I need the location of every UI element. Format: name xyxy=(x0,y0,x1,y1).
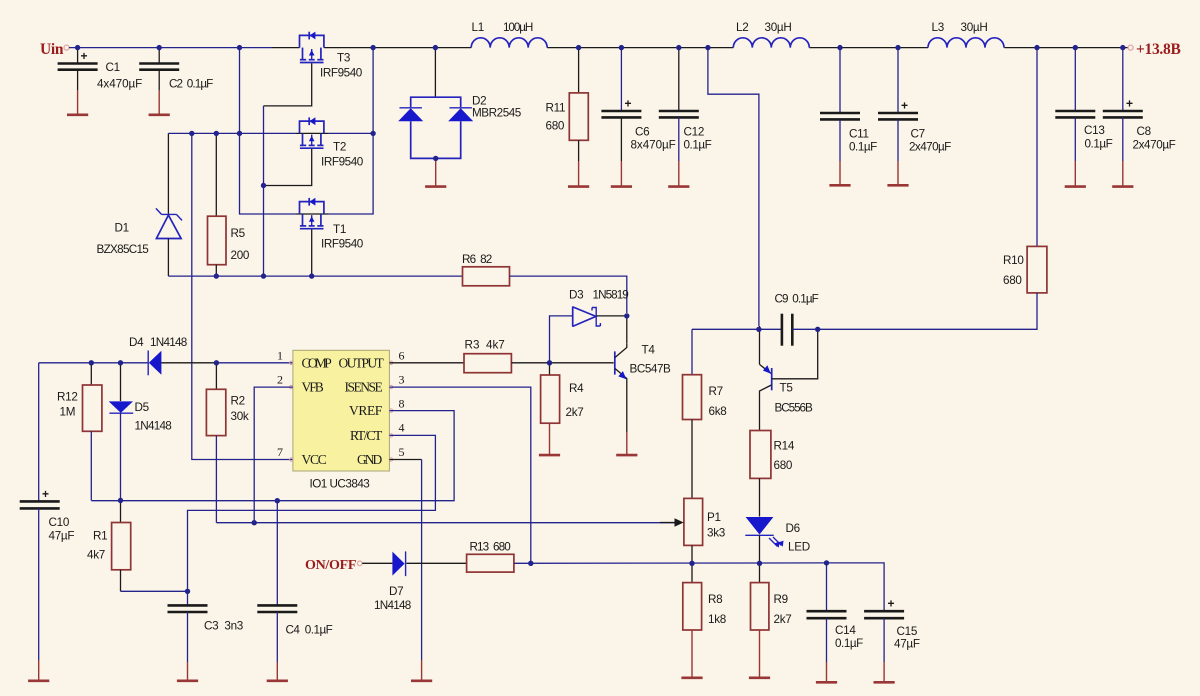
svg-text:R5: R5 xyxy=(231,227,246,240)
svg-text:RT/CT: RT/CT xyxy=(350,428,383,443)
svg-text:6: 6 xyxy=(399,349,405,363)
svg-text:L2: L2 xyxy=(736,21,748,34)
wire R1 bottom to C3 xyxy=(121,590,188,592)
capacitor C14 0.1uF xyxy=(807,563,864,662)
svg-text:680: 680 xyxy=(774,459,793,472)
capacitor C2 0.1uF xyxy=(139,48,213,91)
svg-text:D7: D7 xyxy=(389,585,403,598)
svg-text:6k8: 6k8 xyxy=(709,405,727,418)
wire drain bus T2 to T1 level xyxy=(328,133,373,214)
svg-text:T3: T3 xyxy=(337,52,350,65)
diode D4 1N4148 xyxy=(129,336,216,375)
svg-text:7: 7 xyxy=(277,445,283,459)
svg-text:T1: T1 xyxy=(333,223,346,236)
svg-text:D3: D3 xyxy=(569,289,583,302)
wire drain bus vertical from rail xyxy=(372,48,374,134)
svg-text:30µH: 30µH xyxy=(961,21,988,34)
node ON/OFF terminal xyxy=(305,558,362,573)
wire source bus down to T1 source xyxy=(240,133,297,214)
svg-text:C13: C13 xyxy=(1084,124,1105,137)
ground C4 xyxy=(267,662,288,681)
wire top rail Uin to T3 source xyxy=(69,47,272,49)
svg-text:R1: R1 xyxy=(93,530,107,543)
wire IC pin8 VREF right down and left xyxy=(91,411,454,501)
wire gate bus vertical xyxy=(263,106,265,276)
wire ON/OFF to D7 xyxy=(362,562,392,564)
svg-text:0.1µF: 0.1µF xyxy=(684,139,712,152)
svg-text:D5: D5 xyxy=(135,401,150,414)
transistor T3 IRF9540 p-mosfet xyxy=(300,32,363,80)
inductor L2 30uH xyxy=(733,21,809,48)
wire IC pin2 VFB left and down xyxy=(254,387,293,523)
wire VFB net to P1 wiper xyxy=(216,522,680,524)
resistor R8 1k8 xyxy=(683,563,726,630)
wire COMP net C10 corner to D4 cathode xyxy=(39,362,149,364)
svg-text:C10: C10 xyxy=(49,516,70,529)
svg-text:BC556B: BC556B xyxy=(775,402,814,415)
ground T4 emitter xyxy=(616,383,637,455)
svg-text:+13.8B: +13.8B xyxy=(1136,41,1181,58)
svg-text:R14: R14 xyxy=(774,440,795,453)
capacitor C7 2x470uF electrolytic xyxy=(878,48,951,161)
resistor R7 6k8 xyxy=(683,329,727,498)
svg-text:BZX85C15: BZX85C15 xyxy=(97,243,150,256)
ground C8 xyxy=(1112,161,1133,187)
svg-text:IRF9540: IRF9540 xyxy=(320,67,363,80)
svg-text:+: + xyxy=(1126,97,1133,111)
wire IC pin4 RTCT right down left to C3 xyxy=(188,435,436,605)
capacitor C9 0.1uF xyxy=(775,293,819,346)
wire first stage output down to T5 emitter node xyxy=(708,48,759,326)
svg-text:ISENSE: ISENSE xyxy=(345,380,383,395)
svg-text:R3 4k7: R3 4k7 xyxy=(465,339,505,352)
wire top rail T3 drain to L1 xyxy=(324,47,471,49)
svg-text:200: 200 xyxy=(231,249,250,262)
svg-text:2k7: 2k7 xyxy=(566,406,584,419)
svg-text:2x470µF: 2x470µF xyxy=(1133,139,1176,152)
svg-text:T4: T4 xyxy=(642,344,656,357)
wire R3 to T4 base xyxy=(511,362,613,364)
resistor R3 4k7 xyxy=(464,339,511,373)
wire D7 to R13 xyxy=(407,562,467,564)
capacitor C6 8x470uF electrolytic xyxy=(601,48,675,161)
diode D1 BZX85C15 zener xyxy=(97,133,183,276)
svg-text:+: + xyxy=(888,597,895,611)
svg-text:IRF9540: IRF9540 xyxy=(321,238,364,251)
diode D2 MBR2545 dual schottky xyxy=(398,48,522,159)
svg-text:C3 3n3: C3 3n3 xyxy=(204,620,243,633)
capacitor C13 0.1uF xyxy=(1055,48,1112,161)
svg-text:2k7: 2k7 xyxy=(774,613,792,626)
svg-text:R11: R11 xyxy=(546,102,566,115)
svg-text:D1: D1 xyxy=(115,222,129,235)
svg-text:47µF: 47µF xyxy=(894,638,920,651)
svg-text:C14: C14 xyxy=(835,624,856,637)
resistor R2 30k xyxy=(206,363,249,523)
svg-text:R6 82: R6 82 xyxy=(462,253,492,266)
svg-text:VCC: VCC xyxy=(302,452,327,467)
ground R9 xyxy=(749,630,770,678)
wire input rail down to source bus xyxy=(239,48,241,134)
svg-text:0.1µF: 0.1µF xyxy=(1085,138,1113,151)
diode D6 LED xyxy=(745,517,810,563)
wire top rail into T3 xyxy=(272,47,300,49)
capacitor C1 4x470uF electrolytic xyxy=(58,48,143,91)
wire VCC from source bus down to IC pin7 xyxy=(192,133,293,459)
svg-text:C11: C11 xyxy=(849,128,869,141)
wire IC pin6 OUTPUT to R3 xyxy=(389,362,464,364)
ground C10 xyxy=(28,660,49,681)
capacitor C12 0.1uF xyxy=(659,48,712,161)
capacitor C4 0.1uF xyxy=(257,501,332,662)
wire IC pin5 GND down to ground xyxy=(389,459,421,461)
svg-text:L1: L1 xyxy=(472,21,484,34)
svg-text:+: + xyxy=(625,97,632,111)
wire top rail L3 to +13.8B terminal xyxy=(1004,47,1128,49)
wire T1 gate down to bottom gate wire xyxy=(311,230,313,277)
svg-text:1N4148: 1N4148 xyxy=(135,420,172,433)
diode D3 1N5819 schottky xyxy=(569,289,629,327)
svg-text:8x470µF: 8x470µF xyxy=(631,139,676,152)
svg-text:1N4148: 1N4148 xyxy=(150,336,187,349)
svg-text:1M: 1M xyxy=(60,406,76,419)
ground C12 xyxy=(668,161,689,187)
svg-text:IRF9540: IRF9540 xyxy=(321,156,364,169)
svg-text:R2: R2 xyxy=(231,395,245,408)
resistor R11 680 xyxy=(546,48,589,161)
wire T4 collector up to D3 and R6 xyxy=(626,316,628,343)
inductor L1 100uH xyxy=(471,21,547,48)
svg-text:2x470µF: 2x470µF xyxy=(909,141,951,154)
svg-text:1N5819: 1N5819 xyxy=(593,289,629,302)
svg-text:C9 0.1µF: C9 0.1µF xyxy=(775,293,819,306)
svg-text:4: 4 xyxy=(399,421,405,435)
svg-text:P1: P1 xyxy=(707,511,721,524)
transistor T4 BC547B npn xyxy=(615,343,671,383)
diode D7 1N4148 xyxy=(374,551,411,612)
svg-text:C12: C12 xyxy=(684,126,705,139)
ground R4 xyxy=(539,423,560,455)
svg-text:1k8: 1k8 xyxy=(708,613,726,626)
node +13.8B terminal xyxy=(1128,41,1180,58)
svg-text:D4: D4 xyxy=(129,336,144,349)
svg-text:2: 2 xyxy=(277,373,283,387)
svg-text:R4: R4 xyxy=(569,382,584,395)
svg-text:COMP: COMP xyxy=(302,355,332,370)
svg-text:1: 1 xyxy=(277,349,283,363)
svg-text:R8: R8 xyxy=(708,593,722,606)
ground R11 xyxy=(568,161,589,187)
svg-text:C6: C6 xyxy=(635,126,649,139)
ground IC pin5 xyxy=(411,660,432,681)
capacitor C15 47uF electrolytic xyxy=(827,563,920,662)
svg-text:+: + xyxy=(901,99,908,113)
svg-text:47µF: 47µF xyxy=(49,530,75,543)
svg-text:C15: C15 xyxy=(897,625,918,638)
ground C1 xyxy=(67,90,88,115)
svg-text:30µH: 30µH xyxy=(765,21,792,34)
wire R13 to P1 bottom rail xyxy=(514,562,827,564)
resistor R9 2k7 xyxy=(751,563,792,630)
svg-text:C1: C1 xyxy=(106,61,120,74)
svg-text:OUTPUT: OUTPUT xyxy=(339,355,385,370)
wire top rail L1 to L2 xyxy=(547,47,733,49)
svg-text:ON/OFF: ON/OFF xyxy=(305,558,356,573)
capacitor C11 0.1uF xyxy=(820,48,877,161)
svg-text:BC547B: BC547B xyxy=(630,363,672,376)
capacitor C8 2x470uF electrolytic xyxy=(1103,48,1176,161)
wire IC pin3 ISENSE right and down xyxy=(389,387,530,563)
svg-text:T5: T5 xyxy=(780,382,794,395)
wire gate bottom rail to R6 xyxy=(168,275,462,277)
wire R6 to T4 collector node xyxy=(510,276,627,313)
wire T3 gate down and left xyxy=(264,63,312,106)
inductor L3 30uH xyxy=(928,21,1004,48)
resistor R6 82 xyxy=(462,253,510,286)
ground C14 xyxy=(816,662,837,682)
svg-text:R12: R12 xyxy=(57,391,78,404)
svg-text:+: + xyxy=(81,49,88,63)
transistor T1 IRF9540 p-mosfet xyxy=(296,198,364,251)
ic IO1 UC3843 xyxy=(277,349,405,491)
wire T2 gate down and left to gate bus xyxy=(264,149,312,186)
svg-text:D6: D6 xyxy=(786,522,800,535)
svg-text:C4 0.1µF: C4 0.1µF xyxy=(286,624,333,637)
svg-text:680: 680 xyxy=(546,120,565,133)
svg-text:Uin: Uin xyxy=(40,41,64,58)
ground C6 xyxy=(611,161,632,187)
svg-text:3k3: 3k3 xyxy=(707,527,725,540)
resistor R12 1M xyxy=(57,363,102,501)
ground C3 xyxy=(177,662,198,681)
svg-text:100µH: 100µH xyxy=(503,21,533,34)
svg-text:C8: C8 xyxy=(1137,125,1151,138)
svg-text:0.1µF: 0.1µF xyxy=(849,141,877,154)
transistor T2 IRF9540 p-mosfet xyxy=(296,117,364,168)
wire C9 node left segment xyxy=(692,328,781,330)
wire C9 right to base node xyxy=(792,328,817,330)
svg-text:3: 3 xyxy=(399,373,405,387)
svg-text:680: 680 xyxy=(1003,274,1022,287)
wire source bus y=133 xyxy=(168,132,373,134)
svg-text:1N4148: 1N4148 xyxy=(374,599,411,612)
wire R10 bottom to C9 node xyxy=(818,293,1037,329)
resistor R10 680 xyxy=(1003,48,1047,293)
ground C11 xyxy=(829,161,850,185)
svg-text:5: 5 xyxy=(399,445,405,459)
svg-text:4k7: 4k7 xyxy=(87,549,105,562)
resistor R14 680 xyxy=(750,395,795,517)
potentiometer P1 3k3 xyxy=(660,498,725,563)
svg-text:MBR2545: MBR2545 xyxy=(472,107,522,120)
svg-text:GND: GND xyxy=(357,452,383,467)
svg-text:VFB: VFB xyxy=(302,380,324,395)
capacitor C3 3n3 xyxy=(168,605,244,662)
wire D4 anode to IC pin1 xyxy=(216,362,293,364)
svg-text:L3: L3 xyxy=(932,21,944,34)
ground D2 xyxy=(425,158,446,186)
svg-text:0.1µF: 0.1µF xyxy=(835,637,863,650)
svg-text:C2 0.1µF: C2 0.1µF xyxy=(169,78,213,91)
ground C7 xyxy=(887,161,908,185)
resistor R13 680 xyxy=(467,541,514,573)
ground C13 xyxy=(1065,161,1086,187)
svg-text:+: + xyxy=(42,487,49,501)
wire D3 anode branch xyxy=(550,316,573,363)
svg-text:T2: T2 xyxy=(333,141,346,154)
svg-text:R9: R9 xyxy=(774,593,788,606)
svg-text:C7: C7 xyxy=(911,128,925,141)
resistor R4 2k7 xyxy=(541,363,585,423)
ground C2 xyxy=(149,90,170,115)
resistor R1 4k7 xyxy=(87,501,131,592)
svg-text:R7: R7 xyxy=(709,385,723,398)
resistor R5 200 xyxy=(208,133,250,276)
wire top rail L2 to L3 xyxy=(809,47,928,49)
capacitor C10 47uF electrolytic xyxy=(20,363,75,660)
ground C15 xyxy=(874,662,895,682)
svg-text:LED: LED xyxy=(788,541,810,554)
svg-text:R13 680: R13 680 xyxy=(470,541,512,554)
svg-text:8: 8 xyxy=(399,397,405,411)
svg-text:R10: R10 xyxy=(1003,254,1024,267)
ground R8 xyxy=(681,630,702,678)
svg-text:IO1 UC3843: IO1 UC3843 xyxy=(310,478,370,491)
transistor T5 BC556B pnp xyxy=(760,326,818,415)
node Uin terminal xyxy=(40,41,69,58)
svg-text:4x470µF: 4x470µF xyxy=(97,78,142,91)
diode D5 1N4148 xyxy=(109,363,172,501)
svg-text:VREF: VREF xyxy=(349,403,383,418)
svg-text:30k: 30k xyxy=(231,410,249,423)
